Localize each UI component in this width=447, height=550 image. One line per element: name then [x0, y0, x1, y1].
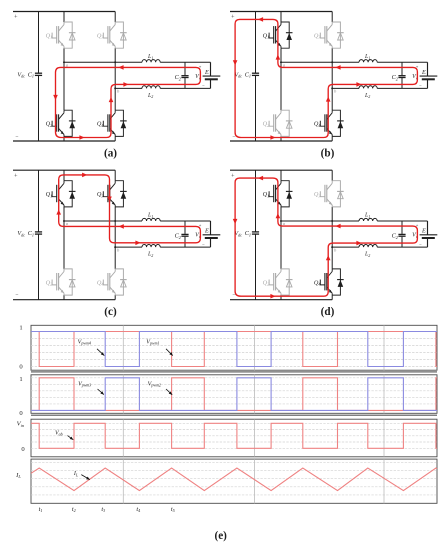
trace V_pwm2 (blue, plot 2): [31, 378, 437, 411]
svg-text:−: −: [202, 84, 205, 89]
inductor L1: [142, 218, 160, 221]
battery E plates: [420, 234, 438, 236]
wire output top (node a to load): [64, 220, 142, 222]
current path (red) variant d: [235, 178, 417, 296]
wire left leg upper: [63, 170, 65, 181]
svg-text:E: E: [204, 228, 209, 235]
capacitor C2 branch: [184, 62, 186, 75]
wire left leg upper: [280, 170, 282, 181]
wire left leg lower: [63, 136, 65, 141]
capacitor C2 plates: [181, 75, 188, 77]
transistor Q4 (a): [103, 110, 126, 136]
capacitor C2 plates: [398, 233, 405, 235]
wire right leg mid: [331, 207, 333, 269]
negative DC rail: [230, 140, 332, 142]
svg-text:L2: L2: [364, 93, 370, 99]
battery E plates: [420, 75, 438, 77]
current path (red) variant a: [56, 67, 201, 137]
positive DC rail: [13, 11, 115, 13]
battery E branch wires: [427, 62, 429, 76]
svg-text:(b): (b): [321, 148, 335, 160]
plot box 4: [31, 459, 437, 503]
capacitor C1 plates: [252, 231, 259, 233]
inductor L2: [359, 244, 377, 247]
wire left leg mid (node a): [63, 207, 65, 269]
wire left leg upper: [63, 12, 65, 23]
capacitor C1 plates: [35, 72, 42, 74]
trace I_L (red, plot 4): [31, 468, 437, 491]
current path (red) variant c: [59, 175, 201, 243]
battery E plates: [203, 75, 221, 77]
capacitor C2 branch: [401, 221, 403, 234]
wire right leg mid: [114, 48, 116, 110]
trace V_pwm4 (blue, plot 1): [31, 332, 437, 367]
separator lines between plots: [31, 371, 437, 373]
svg-text:L2: L2: [364, 252, 370, 258]
inductor L1: [359, 60, 377, 63]
positive DC rail: [230, 11, 332, 13]
svg-text:E: E: [421, 69, 426, 76]
transistor Q2 (a): [52, 110, 75, 136]
svg-text:Vpwm1: Vpwm1: [146, 339, 159, 345]
wire output top (node a to load): [281, 220, 359, 222]
transistor Q3 (b): [320, 22, 343, 48]
svg-text:(c): (c): [104, 306, 117, 318]
battery E branch wires: [210, 221, 212, 235]
wire left leg lower: [280, 295, 282, 300]
transistor Q2 (d): [269, 269, 292, 295]
trace V_pwm3 (red, plot 2): [31, 378, 437, 411]
svg-text:Vab: Vab: [55, 430, 63, 436]
capacitor C1 branch wire: [255, 12, 257, 73]
svg-text:L1: L1: [147, 213, 153, 219]
inductor L2: [142, 244, 160, 247]
wire output top (node a to load): [64, 61, 142, 63]
transistor Q1 (d): [269, 181, 292, 207]
capacitor C1 branch wire: [255, 170, 257, 231]
svg-text:−: −: [15, 134, 18, 140]
node a: [280, 220, 282, 222]
plot box 1: [31, 325, 437, 370]
positive DC rail: [13, 169, 115, 171]
transistor Q4 (b): [320, 110, 343, 136]
transistor Q3 (c): [103, 181, 126, 207]
inductor L2: [142, 86, 160, 89]
wire right leg mid: [114, 207, 116, 269]
node b: [331, 87, 333, 89]
svg-text:Vpwm3: Vpwm3: [78, 381, 91, 387]
capacitor C1 plates: [35, 231, 42, 233]
wire right leg mid: [331, 48, 333, 110]
node b: [114, 246, 116, 248]
negative DC rail: [13, 299, 115, 301]
trace V_pwm1 (red, plot 1): [31, 332, 437, 367]
trace V_ab (red, plot 3): [31, 423, 437, 448]
node a: [63, 61, 65, 63]
capacitor C2 branch: [184, 221, 186, 234]
svg-text:a: a: [66, 221, 68, 226]
capacitor C1 branch wire: [38, 170, 40, 231]
node a: [280, 61, 282, 63]
wire right leg lower: [331, 136, 333, 141]
node a: [63, 220, 65, 222]
wire left leg lower: [280, 136, 282, 141]
transistor Q1 (a): [52, 22, 75, 48]
inductor L1: [359, 218, 377, 221]
capacitor C1 plates: [252, 72, 259, 74]
plot box 3: [31, 419, 437, 457]
wire left leg upper: [280, 12, 282, 23]
svg-text:Vpwm4: Vpwm4: [78, 339, 91, 345]
wire left leg lower: [63, 295, 65, 300]
transistor Q3 (a): [103, 22, 126, 48]
wire left leg mid (node a): [280, 207, 282, 269]
svg-text:−: −: [202, 242, 205, 247]
wire right leg upper: [114, 170, 116, 181]
capacitor C2 plates: [398, 75, 405, 77]
inductor L1: [142, 60, 160, 63]
svg-text:Vpwm2: Vpwm2: [148, 381, 161, 387]
wire output bottom (node b to load): [115, 246, 142, 248]
svg-text:L1: L1: [364, 54, 370, 60]
battery E plates: [203, 234, 221, 236]
svg-text:(a): (a): [104, 148, 117, 160]
wire right leg lower: [114, 136, 116, 141]
transistor Q3 (d): [320, 181, 343, 207]
wire left leg mid (node a): [280, 48, 282, 110]
wire right leg upper: [331, 12, 333, 23]
svg-text:1: 1: [19, 376, 22, 383]
svg-text:−: −: [419, 242, 422, 247]
node b: [114, 87, 116, 89]
transistor Q4 (c): [103, 269, 126, 295]
negative DC rail: [230, 299, 332, 301]
battery E branch wires: [210, 62, 212, 76]
capacitor C2 plates: [181, 233, 188, 235]
svg-text:IL: IL: [73, 471, 79, 477]
transistor Q1 (b): [269, 22, 292, 48]
svg-text:1: 1: [19, 325, 22, 332]
svg-text:E: E: [421, 228, 426, 235]
svg-text:−: −: [419, 84, 422, 89]
capacitor C1 branch wire: [38, 12, 40, 73]
svg-text:L1: L1: [364, 213, 370, 219]
plot box 2: [31, 375, 437, 414]
svg-text:L2: L2: [147, 93, 153, 99]
negative DC rail: [13, 140, 115, 142]
capacitor C2 branch: [401, 62, 403, 75]
wire output bottom (node b to load): [332, 246, 359, 248]
svg-text:L2: L2: [147, 252, 153, 258]
node b: [331, 246, 333, 248]
wire output bottom (node b to load): [115, 87, 142, 89]
wire left leg mid (node a): [63, 48, 65, 110]
transistor Q2 (c): [52, 269, 75, 295]
transistor Q1 (c): [52, 181, 75, 207]
current path (red) variant b: [235, 19, 417, 137]
transistor Q2 (b): [269, 110, 292, 136]
svg-text:L1: L1: [147, 54, 153, 60]
wire right leg lower: [114, 295, 116, 300]
svg-text:E: E: [204, 69, 209, 76]
svg-text:−: −: [15, 293, 18, 299]
wire right leg upper: [331, 170, 333, 181]
wire output bottom (node b to load): [332, 87, 359, 89]
battery E branch wires: [427, 221, 429, 235]
svg-text:(e): (e): [214, 530, 227, 542]
positive DC rail: [230, 169, 332, 171]
svg-text:(d): (d): [321, 306, 335, 318]
wire right leg upper: [114, 12, 116, 23]
wire right leg lower: [331, 295, 333, 300]
transistor Q4 (d): [320, 269, 343, 295]
inductor L2: [359, 86, 377, 89]
wire output top (node a to load): [281, 61, 359, 63]
